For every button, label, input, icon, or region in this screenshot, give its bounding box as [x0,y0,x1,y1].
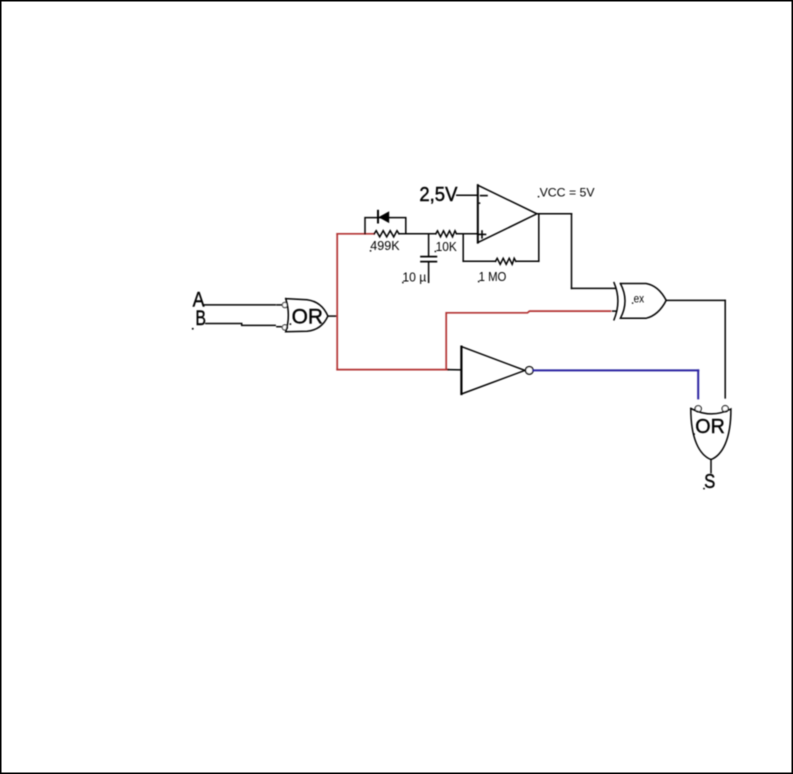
wire XOR output corner down [724,300,726,398]
resistor R2 10K zigzag [436,231,457,237]
inverter U2 triangle [461,347,525,394]
resistor R1 499K zigzag [374,231,399,237]
svg-text:499K: 499K [370,238,400,253]
svg-text:ex: ex [634,292,645,306]
wire stub into XOR lower input [613,310,617,312]
feedback wire down from plus node [462,234,464,261]
wire OR G3 output stub [710,460,712,473]
anchor dot 10K [435,251,437,253]
blue wire corner down [697,370,699,398]
diode D1 cathode bar [377,211,379,223]
capacitor C1 bottom lead [428,262,430,282]
svg-text:10 µ: 10 µ [402,270,426,285]
feedback wire left run [463,260,495,262]
capacitor C1 bottom plate [421,261,436,263]
capacitor C1 top lead [428,234,430,256]
op-amp U1 triangle [478,185,537,242]
op-amp U1 plus sign [479,233,486,235]
resistor R3 1 MO zigzag [496,258,516,264]
XOR gate G2 input arc [614,283,618,320]
OR gate G3 input pin circle left [695,406,701,412]
red wire branch up to XOR [446,311,610,370]
OR gate G1 input pin circle A [282,302,287,307]
wire stub into inverter input [448,369,461,371]
red wire to 499K node [337,233,374,235]
diode D1 branch loop [365,218,406,234]
wire 2,5V to minus input [457,194,478,196]
feedback wire right run [516,260,539,262]
red net: vertical trunk from OR output [337,234,610,370]
diode D1 triangle [378,211,389,223]
red wire bottom run to inverter branch [337,369,448,371]
inverter U2 bubble [526,367,534,375]
anchor dot OR G1 [290,323,292,325]
anchor dot S [703,488,705,490]
anchor dot 1 MO [478,281,480,283]
svg-text:1 MO: 1 MO [479,269,507,284]
svg-text:OR: OR [695,416,725,438]
capacitor C1 top plate [421,256,436,258]
op-amp U1 minus sign [481,195,487,197]
anchor dot 10 u [402,282,404,284]
wire op-amp output [537,213,572,215]
wire to XOR upper input [572,287,616,289]
OR gate G3 input pin circle right [722,406,728,412]
wire input B [206,324,275,326]
svg-text:B: B [195,307,206,330]
anchor dot 499K [370,250,372,252]
svg-text:2,5V: 2,5V [419,183,457,206]
feedback wire up to output [538,214,540,261]
blue net wire from inverter [533,370,698,398]
wire R2 to op-amp plus input [457,233,478,235]
OR gate G3 body [691,408,731,459]
wire XOR output [666,299,725,301]
wire R1 to R2 [399,233,436,235]
OR gate G1 input pin circle B [282,325,287,330]
svg-text:S: S [704,470,715,493]
anchor dot minus [479,202,481,204]
anchor dot VCC [538,196,540,198]
anchor dot ex [632,302,633,303]
OR gate G1 body [286,299,328,332]
svg-text:VCC = 5V: VCC = 5V [540,186,596,200]
wire OR G1 output stub [328,315,337,317]
XOR gate G2 body [620,284,666,319]
svg-text:OR: OR [292,306,323,329]
anchor dot OR G3 [693,433,695,435]
wire output corner down [571,214,573,289]
svg-text:10K: 10K [436,239,457,254]
wire input A [205,304,276,306]
anchor dot B [192,328,194,330]
